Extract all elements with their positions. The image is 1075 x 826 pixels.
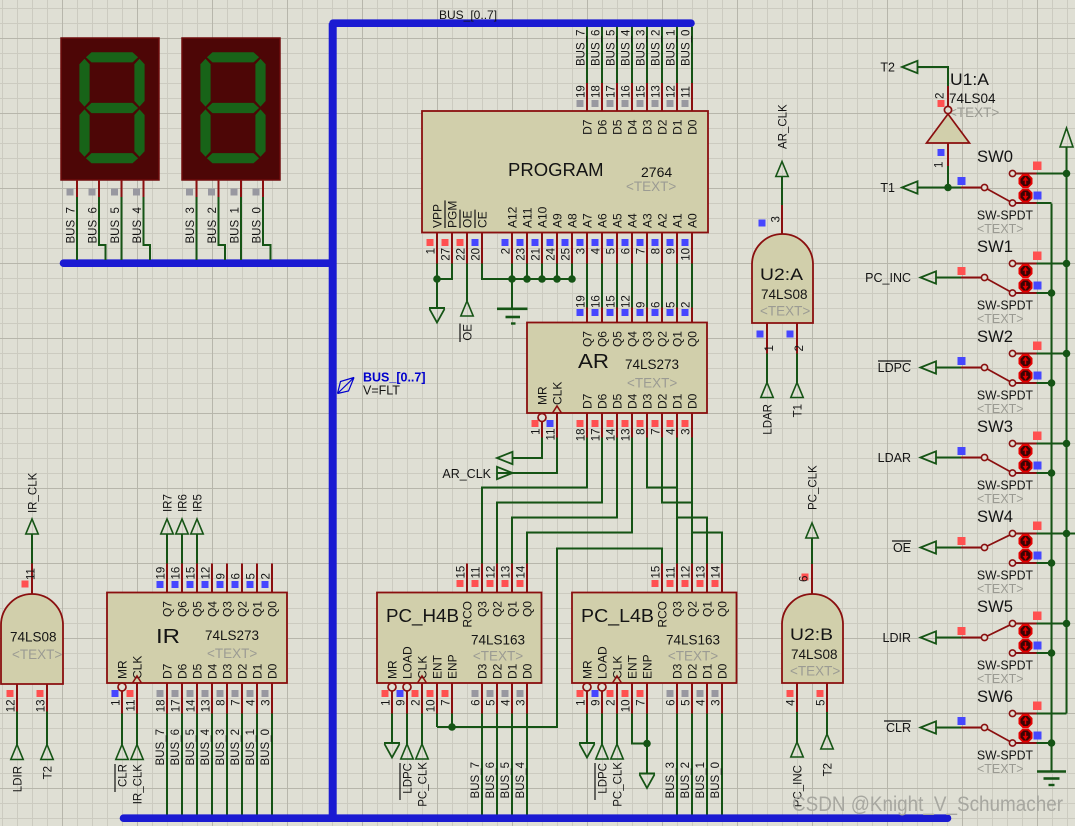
- svg-text:<TEXT>: <TEXT>: [949, 105, 999, 120]
- svg-text:Q0: Q0: [716, 601, 730, 617]
- net PC_H4B PC_CLK terminal: [421, 714, 423, 745]
- PROGRAM pin 23 A11: [526, 233, 528, 264]
- PC_L4B pin 13 Q1: [706, 564, 708, 593]
- PROGRAM pin 6 A4: [631, 233, 633, 264]
- svg-text:2: 2: [794, 345, 806, 351]
- PROGRAM pin 15 D3 wire from bus: [646, 27, 648, 83]
- net T2 terminal gate: [46, 712, 48, 745]
- svg-text:LOAD: LOAD: [596, 646, 610, 679]
- svg-text:13: 13: [501, 566, 513, 579]
- switch SW2 SW-SPDT: [936, 367, 961, 369]
- svg-text:BUS_7: BUS_7: [66, 207, 78, 243]
- PC_H4B pin 10 ENT: [436, 683, 438, 714]
- svg-text:Q6: Q6: [596, 331, 610, 347]
- svg-text:D2: D2: [491, 663, 505, 679]
- svg-text:PC_CLK: PC_CLK: [613, 762, 625, 807]
- PC_L4B pin 6 D3 wire to bus: [676, 683, 678, 714]
- svg-text:A6: A6: [596, 213, 610, 228]
- svg-text:D0: D0: [686, 393, 700, 409]
- PC_H4B pin 6 D3 wire to bus: [481, 683, 483, 714]
- IR pin 13 D4 wire to bus: [211, 683, 213, 714]
- IR pin 8 D3 wire to bus: [226, 683, 228, 714]
- svg-text:MR: MR: [386, 660, 400, 679]
- AR pin 19 Q7: [586, 308, 588, 323]
- AR pin 3 D0: [691, 413, 693, 438]
- svg-text:<TEXT>: <TEXT>: [12, 647, 62, 662]
- bus BUS_[0..7] bottom horizontal: [124, 814, 948, 822]
- svg-text:7: 7: [636, 700, 648, 706]
- svg-text:14: 14: [606, 428, 618, 441]
- svg-text:11: 11: [666, 567, 678, 579]
- svg-text:24: 24: [546, 247, 558, 260]
- svg-text:SW1: SW1: [977, 238, 1013, 256]
- AR pin 18 D7: [586, 413, 588, 438]
- svg-text:BUS_1: BUS_1: [695, 762, 707, 798]
- svg-text:74LS163: 74LS163: [471, 633, 525, 648]
- AR pin 9 Q3: [646, 308, 648, 323]
- svg-text:BUS_0: BUS_0: [681, 30, 693, 66]
- svg-text:BUS_3: BUS_3: [636, 30, 648, 66]
- svg-text:74LS163: 74LS163: [666, 633, 720, 648]
- svg-text:<TEXT>: <TEXT>: [626, 179, 676, 194]
- svg-text:2: 2: [261, 573, 273, 579]
- IR pin 14 D5 wire to bus: [196, 683, 198, 714]
- wire display pin BUS_4: [143, 180, 145, 197]
- svg-text:D0: D0: [266, 663, 280, 679]
- svg-text:12: 12: [486, 566, 498, 579]
- PC_H4B pin 2 CLK: [418, 676, 427, 683]
- switch SW1 SW-SPDT: [936, 277, 961, 279]
- svg-text:13: 13: [651, 85, 663, 98]
- svg-text:SW-SPDT: SW-SPDT: [977, 749, 1033, 763]
- svg-text:D1: D1: [701, 663, 715, 679]
- svg-text:RCO: RCO: [461, 601, 475, 628]
- PC_H4B pin 12 Q2: [496, 564, 498, 593]
- svg-text:PC_CLK: PC_CLK: [418, 762, 430, 807]
- EPROM U-PROGRAM body 2764: [422, 111, 708, 233]
- PC_L4B pin 2 CLK: [613, 676, 622, 683]
- svg-text:13: 13: [36, 700, 48, 713]
- AND gate U2:A body: [752, 234, 813, 323]
- PC_L4B pin 15 RCO: [661, 564, 663, 593]
- svg-text:BUS_1: BUS_1: [230, 207, 242, 243]
- U3:A pin 11 output: [31, 564, 33, 595]
- svg-text:BUS_5: BUS_5: [185, 729, 197, 765]
- net PC_H4B LDPC terminal: [406, 714, 408, 745]
- AR pin 16 Q6: [601, 308, 603, 323]
- svg-text:74LS273: 74LS273: [205, 628, 259, 643]
- wire AR D to PC Q x677: [677, 438, 707, 564]
- svg-text:CSDN @Knight_V_Schumacher: CSDN @Knight_V_Schumacher: [792, 793, 1063, 816]
- svg-text:7: 7: [636, 248, 648, 254]
- IR pin 4 D1 wire to bus: [256, 683, 258, 714]
- svg-text:18: 18: [576, 429, 588, 442]
- svg-text:CLK: CLK: [611, 656, 625, 679]
- svg-text:6: 6: [471, 700, 483, 706]
- PROGRAM pin 27 PGM: [451, 233, 453, 264]
- PC_H4B pin 11 Q3: [481, 564, 483, 593]
- net VPP/PGM power terminal: [436, 264, 438, 309]
- wire A7 to AR: [586, 264, 588, 308]
- svg-text:PC_L4B: PC_L4B: [581, 605, 654, 627]
- IR pin 7 D2 wire to bus: [241, 683, 243, 714]
- PC_L4B pin 5 D2 wire to bus: [691, 683, 693, 714]
- svg-text:ENP: ENP: [446, 654, 460, 679]
- svg-text:SW-SPDT: SW-SPDT: [977, 389, 1033, 403]
- svg-text:D7: D7: [581, 119, 595, 135]
- svg-text:BUS_1: BUS_1: [245, 729, 257, 765]
- svg-text:BUS_3: BUS_3: [215, 729, 227, 765]
- AR pin 14 D5: [616, 413, 618, 438]
- terminal arrow top rail: [1060, 128, 1073, 147]
- svg-text:BUS_6: BUS_6: [88, 207, 100, 243]
- U2:A pin 2: [796, 323, 798, 354]
- switch SW0 SW-SPDT: [918, 187, 962, 189]
- svg-text:BUS_7: BUS_7: [155, 729, 167, 765]
- IR pin 12 Q4: [211, 564, 213, 593]
- net AR MR terminal: [513, 438, 543, 459]
- IR pin 2 Q0: [271, 564, 273, 593]
- IR pin 6 Q2: [241, 564, 243, 593]
- svg-text:D6: D6: [176, 663, 190, 679]
- svg-text:D4: D4: [626, 393, 640, 409]
- svg-text:5: 5: [666, 302, 678, 308]
- PROGRAM pin 9 A1: [676, 233, 678, 264]
- svg-text:BUS_0: BUS_0: [710, 762, 722, 798]
- U2:A pin 3 output: [781, 205, 783, 234]
- svg-text:IR_CLK: IR_CLK: [133, 764, 145, 805]
- svg-text:D2: D2: [236, 663, 250, 679]
- IR pin 15 Q5: [196, 564, 198, 593]
- PC_L4B pin 11 Q3: [676, 564, 678, 593]
- svg-text:BUS_[0..7]: BUS_[0..7]: [439, 8, 497, 22]
- svg-text:Q1: Q1: [251, 601, 265, 617]
- svg-text:11: 11: [26, 568, 38, 580]
- switch SW5 SW-SPDT: [936, 637, 961, 639]
- wire A1 to AR: [676, 264, 678, 308]
- wire A6 to AR: [601, 264, 603, 308]
- svg-text:<TEXT>: <TEXT>: [977, 402, 1024, 416]
- AR pin 12 Q4: [631, 308, 633, 323]
- svg-text:A12: A12: [506, 206, 520, 228]
- svg-text:BUS_0: BUS_0: [260, 729, 272, 765]
- svg-text:<TEXT>: <TEXT>: [977, 492, 1024, 506]
- AND gate U3:A body 74LS08: [1, 594, 63, 684]
- U3:A pin 12: [16, 684, 18, 712]
- svg-text:Q4: Q4: [206, 601, 220, 617]
- svg-text:21: 21: [531, 248, 543, 261]
- U1:A pin 1: [947, 143, 949, 166]
- PC_H4B pin 5 D2 wire to bus: [496, 683, 498, 714]
- net LDAR terminal U2:A: [766, 354, 768, 383]
- svg-text:A10: A10: [536, 206, 550, 228]
- svg-text:T1: T1: [793, 404, 805, 417]
- PC_L4B pin 7 ENP: [646, 683, 648, 714]
- svg-text:LDAR: LDAR: [878, 451, 911, 465]
- svg-text:A0: A0: [686, 213, 700, 228]
- net AR_CLK terminal U2:A: [781, 177, 783, 206]
- svg-text:7: 7: [441, 700, 453, 706]
- PC_L4B pin 3 D0 wire to bus: [721, 683, 723, 714]
- wire A2 to AR: [661, 264, 663, 308]
- PROGRAM pin 11 D0 wire from bus: [691, 27, 693, 83]
- svg-text:2764: 2764: [641, 164, 672, 180]
- IR pin 17 D6 wire to bus: [181, 683, 183, 714]
- net LDIR terminal gate: [16, 712, 18, 745]
- svg-text:<TEXT>: <TEXT>: [977, 672, 1024, 686]
- svg-text:BUS_3: BUS_3: [665, 762, 677, 798]
- PC_H4B pin 7 ENP: [451, 683, 453, 714]
- svg-text:Q0: Q0: [686, 331, 700, 347]
- PC_H4B pin 1 MR: [388, 683, 396, 691]
- svg-text:BUS_6: BUS_6: [591, 30, 603, 66]
- svg-text:BUS_4: BUS_4: [515, 761, 527, 798]
- svg-text:1: 1: [531, 429, 543, 435]
- svg-text:1: 1: [764, 345, 776, 351]
- wire A3 to AR: [646, 264, 648, 308]
- svg-text:PC_INC: PC_INC: [865, 271, 911, 285]
- PC_L4B pin 1 MR: [583, 683, 591, 691]
- net PC_L4B LDPC terminal: [601, 714, 603, 745]
- PROGRAM pin 10 A0: [691, 233, 693, 264]
- counter PC_L4B body 74LS163: [572, 593, 737, 684]
- svg-text:MR: MR: [581, 660, 595, 679]
- svg-text:4: 4: [591, 247, 603, 254]
- net PC_H4B MR terminal: [391, 714, 393, 744]
- AR pin 15 Q5: [616, 308, 618, 323]
- svg-text:1: 1: [576, 700, 588, 706]
- PROGRAM pin 19 D7 wire from bus: [586, 27, 588, 83]
- IR pin 9 Q3: [226, 564, 228, 593]
- svg-text:Q7: Q7: [161, 601, 175, 617]
- svg-text:13: 13: [621, 429, 633, 442]
- svg-text:74LS08: 74LS08: [10, 630, 57, 645]
- AND gate U2:B body: [782, 594, 843, 683]
- net PC_L4B PC_CLK terminal: [616, 714, 618, 745]
- svg-text:ENT: ENT: [431, 654, 445, 679]
- PROGRAM pin 25 A8: [571, 233, 573, 264]
- svg-text:<TEXT>: <TEXT>: [977, 762, 1024, 776]
- AR pin 6 Q2: [661, 308, 663, 323]
- svg-text:4: 4: [666, 428, 678, 435]
- svg-text:16: 16: [171, 567, 183, 580]
- svg-text:12: 12: [681, 566, 693, 579]
- svg-text:AR: AR: [578, 351, 609, 373]
- svg-text:CLK: CLK: [416, 656, 430, 679]
- svg-text:11: 11: [126, 700, 138, 712]
- AR pin 1 MR: [538, 414, 546, 422]
- svg-text:17: 17: [606, 85, 618, 98]
- U2:A pin 1: [766, 323, 768, 354]
- wire A0 to AR: [691, 264, 693, 308]
- 7-segment display DS1: [61, 38, 159, 180]
- svg-text:9: 9: [591, 700, 603, 706]
- PC_L4B pin 12 Q2: [691, 564, 693, 593]
- svg-text:6: 6: [651, 302, 663, 308]
- PC_H4B pin 13 Q1: [511, 564, 513, 593]
- svg-text:15: 15: [186, 567, 198, 580]
- AR pin 2 Q0: [691, 308, 693, 323]
- svg-text:VPP: VPP: [431, 204, 445, 228]
- svg-text:74LS08: 74LS08: [761, 287, 808, 302]
- wire A4 to AR: [631, 264, 633, 308]
- svg-text:10: 10: [681, 248, 693, 261]
- svg-text:D5: D5: [611, 119, 625, 135]
- svg-text:3: 3: [681, 429, 693, 435]
- svg-text:<TEXT>: <TEXT>: [627, 376, 677, 391]
- svg-text:3: 3: [711, 700, 723, 706]
- switch SW4 SW-SPDT: [936, 547, 961, 549]
- AR pin 13 D4: [631, 413, 633, 438]
- svg-text:15: 15: [456, 566, 468, 579]
- svg-text:U2:B: U2:B: [790, 626, 833, 644]
- IR pin 1 MR: [118, 683, 126, 691]
- svg-text:ENP: ENP: [641, 654, 655, 679]
- svg-text:A1: A1: [671, 213, 685, 228]
- U2:B pin 5: [826, 683, 828, 712]
- svg-text:D2: D2: [656, 119, 670, 135]
- net IR_CLK terminal IR: [136, 714, 138, 745]
- svg-text:AR_CLK: AR_CLK: [778, 104, 790, 149]
- wire display pin BUS_2: [218, 180, 220, 197]
- svg-text:RCO: RCO: [656, 601, 670, 628]
- svg-text:2: 2: [606, 700, 618, 706]
- svg-text:IR6: IR6: [178, 494, 190, 512]
- PROGRAM pin 24 A9: [556, 233, 558, 264]
- svg-text:IR5: IR5: [193, 494, 205, 512]
- svg-text:D3: D3: [476, 663, 490, 679]
- svg-text:<TEXT>: <TEXT>: [790, 664, 840, 679]
- svg-text:Q0: Q0: [266, 601, 280, 617]
- svg-text:12: 12: [6, 700, 18, 713]
- switch SW6 SW-SPDT: [936, 727, 961, 729]
- svg-text:A5: A5: [611, 213, 625, 228]
- svg-text:D5: D5: [191, 663, 205, 679]
- svg-text:14: 14: [186, 699, 198, 712]
- svg-text:Q3: Q3: [641, 331, 655, 347]
- svg-text:1: 1: [934, 162, 946, 168]
- svg-text:Q3: Q3: [221, 601, 235, 617]
- svg-text:D0: D0: [521, 663, 535, 679]
- svg-text:4: 4: [501, 699, 513, 706]
- wire display pin BUS_7: [76, 180, 78, 197]
- wire display pin BUS_5: [121, 180, 123, 197]
- svg-text:<TEXT>: <TEXT>: [668, 649, 718, 664]
- PROGRAM pin 12 D1 wire from bus: [676, 27, 678, 83]
- svg-text:2: 2: [501, 248, 513, 254]
- svg-text:18: 18: [591, 85, 603, 98]
- U2:B pin 4: [796, 683, 798, 712]
- svg-text:9: 9: [216, 573, 228, 579]
- svg-text:LDIR: LDIR: [883, 631, 911, 645]
- PC_H4B pin 15 RCO stub: [466, 564, 468, 593]
- svg-text:BUS_5: BUS_5: [606, 30, 618, 66]
- svg-text:2: 2: [411, 700, 423, 706]
- svg-text:OE: OE: [893, 541, 911, 555]
- net IR5 terminal: [196, 534, 198, 564]
- svg-text:Q2: Q2: [686, 601, 700, 617]
- svg-text:D0: D0: [716, 663, 730, 679]
- svg-text:5: 5: [246, 573, 258, 579]
- svg-text:LDIR: LDIR: [13, 766, 25, 792]
- svg-text:D0: D0: [686, 119, 700, 135]
- svg-text:A11: A11: [521, 207, 535, 228]
- svg-text:CLK: CLK: [551, 382, 565, 405]
- PROGRAM pin 22 OE: [466, 233, 468, 264]
- PC_H4B pin 15 RCO: [466, 564, 468, 593]
- svg-text:CLK: CLK: [131, 656, 145, 679]
- net AR_CLK terminal: [497, 438, 557, 474]
- svg-text:16: 16: [591, 295, 603, 308]
- svg-text:BUS_7: BUS_7: [576, 30, 588, 66]
- PROGRAM pin 1 VPP: [436, 233, 438, 264]
- svg-text:D7: D7: [581, 393, 595, 409]
- svg-text:D4: D4: [626, 119, 640, 135]
- wire display pin BUS_6: [98, 180, 100, 197]
- svg-text:8: 8: [651, 248, 663, 254]
- PC_H4B pin 4 D1 wire to bus: [511, 683, 513, 714]
- svg-text:9: 9: [636, 302, 648, 308]
- svg-text:4: 4: [246, 699, 258, 706]
- svg-text:Q3: Q3: [476, 601, 490, 617]
- svg-text:23: 23: [516, 248, 528, 261]
- svg-text:PC_CLK: PC_CLK: [808, 465, 820, 510]
- svg-text:15: 15: [651, 566, 663, 579]
- svg-text:<TEXT>: <TEXT>: [977, 582, 1024, 596]
- svg-text:1: 1: [111, 700, 123, 706]
- PROGRAM pin 20 CE: [481, 233, 483, 264]
- svg-text:A8: A8: [566, 213, 580, 228]
- IR pin 16 Q6: [181, 564, 183, 593]
- ground right rail: [1037, 770, 1066, 773]
- svg-text:D2: D2: [686, 663, 700, 679]
- svg-text:SW-SPDT: SW-SPDT: [977, 569, 1033, 583]
- svg-text:U2:A: U2:A: [760, 266, 803, 284]
- svg-text:3: 3: [516, 700, 528, 706]
- svg-text:SW-SPDT: SW-SPDT: [977, 299, 1033, 313]
- AR pin 11 CLK: [553, 406, 562, 413]
- PC_L4B pin 9 LOAD: [598, 683, 606, 691]
- AR pin 17 D6: [601, 413, 603, 438]
- svg-text:Q2: Q2: [656, 331, 670, 347]
- wire AR D to PC Q x632: [527, 438, 632, 564]
- svg-text:74LS04: 74LS04: [949, 91, 996, 106]
- svg-text:7: 7: [231, 700, 243, 706]
- svg-text:Q2: Q2: [236, 601, 250, 617]
- svg-text:BUS_4: BUS_4: [132, 206, 144, 243]
- PROGRAM pin 16 D4 wire from bus: [631, 27, 633, 83]
- net PC_L4B ENT/ENP terminal: [632, 714, 647, 744]
- svg-text:SW0: SW0: [977, 148, 1013, 166]
- svg-text:D2: D2: [656, 393, 670, 409]
- net CLR terminal: [121, 714, 123, 745]
- PROGRAM pin 13 D2 wire from bus: [661, 27, 663, 83]
- svg-text:A2: A2: [656, 213, 670, 228]
- bus BUS_[0..7] left vertical: [329, 23, 337, 818]
- svg-text:U1:A: U1:A: [950, 71, 989, 89]
- svg-text:3: 3: [261, 700, 273, 706]
- wire AR D to PC Q x647: [647, 438, 677, 564]
- 7-segment display DS2: [182, 38, 280, 180]
- bus BUS_[0..7] top horizontal: [333, 19, 691, 27]
- svg-text:BUS_4: BUS_4: [621, 29, 633, 66]
- svg-text:IR: IR: [156, 626, 180, 648]
- IR pin 5 Q1: [256, 564, 258, 593]
- svg-text:20: 20: [471, 248, 483, 261]
- net PC_CLK terminal U2:B: [811, 538, 813, 564]
- PC_H4B pin 14 Q0: [526, 564, 528, 593]
- svg-text:D1: D1: [671, 393, 685, 409]
